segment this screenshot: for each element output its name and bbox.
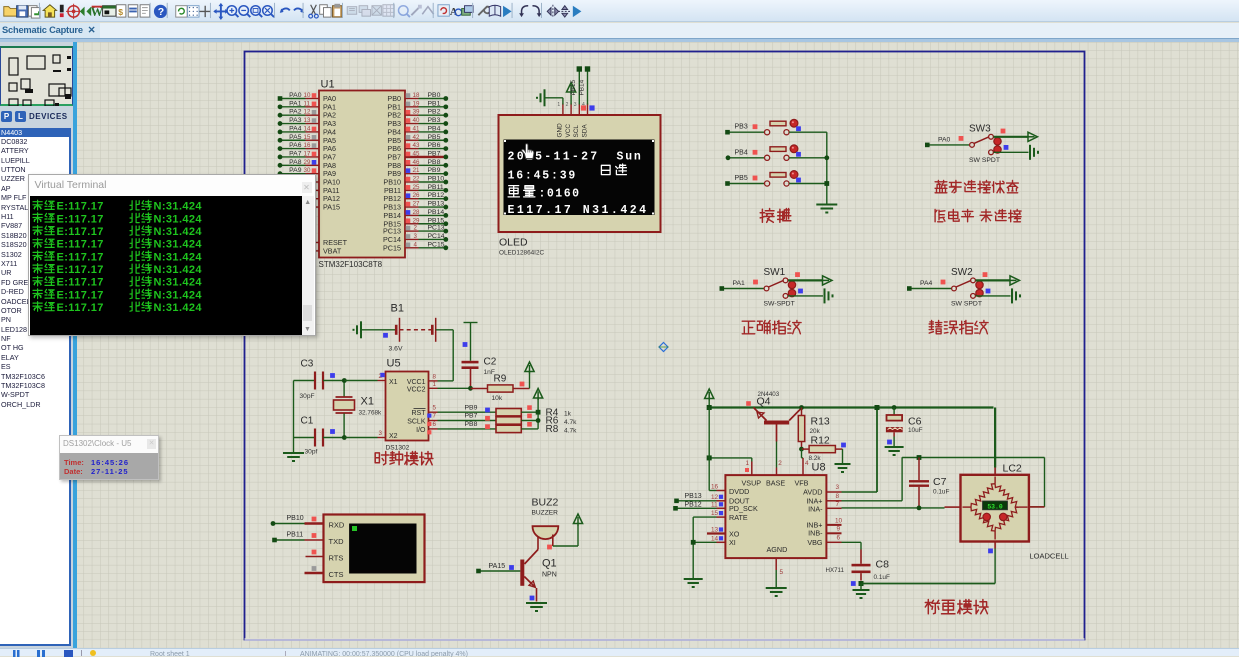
- node X1 top junction: [341, 378, 346, 383]
- svg-text:X1: X1: [389, 379, 398, 386]
- svg-text:4.7k: 4.7k: [564, 427, 577, 434]
- capacitor C7 0.1uF: [916, 455, 921, 460]
- svg-text:BUZZER: BUZZER: [531, 509, 558, 516]
- resistor R8 4.7k: [496, 425, 521, 432]
- LC2 left pin: [944, 506, 960, 508]
- svg-text:PB8: PB8: [464, 421, 477, 428]
- svg-text:B1: B1: [390, 302, 403, 314]
- wire AVDD pin 3: [826, 491, 842, 493]
- label 蓝牙连接状态: [935, 180, 947, 192]
- wire button gnd bus vertical: [825, 132, 827, 203]
- svg-text:27: 27: [412, 200, 419, 207]
- wire PB11 from U1 pin 25: [405, 189, 419, 191]
- wire DVDD row: [709, 489, 716, 491]
- svg-text:TXD: TXD: [328, 537, 344, 546]
- svg-text::0160: :0160: [538, 187, 580, 200]
- VT row 9: [33, 302, 42, 312]
- wire top power rail: [709, 406, 993, 408]
- wire VBG pin 6 to C8: [826, 541, 842, 543]
- VT row 6: [33, 264, 42, 274]
- state squares OLED SCL/SDA: [580, 105, 585, 110]
- node X1 bottom junction: [341, 435, 346, 440]
- wire PA4 to U1 pin 14: [279, 130, 305, 132]
- svg-text:PB12: PB12: [684, 501, 701, 508]
- wire SW1 throw2 to ground: [788, 294, 823, 296]
- svg-text:Q1: Q1: [542, 557, 557, 569]
- wire PB11 to TXD: [274, 539, 304, 541]
- node rail R13 tap: [799, 405, 804, 410]
- svg-text:PB15: PB15: [570, 79, 577, 95]
- label 正确指纹: [742, 321, 755, 334]
- svg-text:16:45:39: 16:45:39: [507, 169, 577, 182]
- svg-text:$: $: [118, 7, 123, 17]
- svg-text:PB12: PB12: [427, 192, 444, 199]
- svg-text:18: 18: [412, 92, 419, 99]
- svg-text:PA1: PA1: [732, 280, 745, 287]
- wire PB4 from U1 pin 41: [405, 130, 419, 132]
- svg-text:PB9: PB9: [427, 167, 440, 174]
- svg-text:VFB: VFB: [794, 478, 808, 487]
- push button PB5: [764, 180, 769, 185]
- svg-text:PA2: PA2: [289, 108, 302, 115]
- svg-text:PB0: PB0: [427, 92, 440, 99]
- svg-text:PB8: PB8: [427, 158, 440, 165]
- svg-text:DS1302: DS1302: [385, 444, 409, 451]
- U5 VCC2 pin 1 wire to node: [428, 387, 437, 389]
- origin marker: [659, 342, 668, 351]
- Q4 base wire down to U8 BASE: [775, 424, 777, 441]
- power terminal weigh module: [704, 389, 713, 399]
- svg-text:NPN: NPN: [542, 571, 557, 578]
- svg-text:PC13: PC13: [427, 224, 444, 231]
- label 时钟模块: [375, 451, 388, 464]
- svg-text:RATE: RATE: [729, 512, 748, 521]
- power terminal R pack: [537, 397, 539, 429]
- svg-text:PA0: PA0: [289, 92, 302, 99]
- svg-text:PA15: PA15: [488, 563, 505, 570]
- svg-text:RXD: RXD: [328, 520, 344, 529]
- svg-text:PB5: PB5: [734, 175, 747, 182]
- svg-text:SCLK: SCLK: [407, 418, 426, 425]
- svg-text:SW1: SW1: [763, 267, 785, 278]
- serial module body: [323, 514, 424, 582]
- power terminal R9: [528, 372, 530, 388]
- svg-text:1: 1: [432, 381, 436, 388]
- svg-text:8: 8: [835, 493, 839, 500]
- sheet border: [244, 51, 1084, 639]
- svg-text:PA5: PA5: [289, 133, 302, 140]
- wire PB13 to DOUT: [677, 499, 716, 501]
- svg-text:C7: C7: [933, 476, 947, 488]
- svg-text:R8: R8: [545, 424, 558, 435]
- svg-text:PB5: PB5: [427, 133, 440, 140]
- svg-text:10uF: 10uF: [908, 427, 923, 434]
- wire PB2 from U1 pin 39: [405, 114, 419, 116]
- VT row 8: [33, 289, 42, 299]
- LC2 bottom pin: [994, 541, 996, 548]
- svg-text:2015-11-27: 2015-11-27: [507, 150, 599, 163]
- svg-text:17: 17: [303, 150, 310, 157]
- crystal X1 32.768k: [343, 380, 345, 396]
- svg-text:42: 42: [412, 133, 419, 140]
- OLED screen: [503, 139, 654, 215]
- INB+ stub pin 10: [826, 523, 842, 525]
- wire PB5 from U1 pin 42: [405, 139, 419, 141]
- svg-text:R9: R9: [493, 373, 506, 384]
- svg-text:29: 29: [412, 217, 419, 224]
- U1 pin PA12 stub: [310, 197, 319, 199]
- svg-text:30pf: 30pf: [304, 448, 317, 455]
- svg-text:C2: C2: [483, 356, 496, 367]
- XO stub: [707, 532, 725, 534]
- wire button to gnd bus: [789, 131, 827, 133]
- svg-text:4.7k: 4.7k: [564, 418, 577, 425]
- LC2 bridge resistors: [971, 483, 995, 506]
- wire PB0 from U1 pin 18: [405, 97, 419, 99]
- svg-text:4: 4: [805, 460, 809, 467]
- SW3 toggle buttons: [993, 137, 1000, 144]
- svg-text:5: 5: [432, 404, 436, 411]
- svg-text:?: ?: [158, 7, 164, 18]
- svg-text:16: 16: [711, 483, 719, 490]
- svg-text:1: 1: [557, 102, 560, 108]
- svg-text:HX711: HX711: [825, 567, 844, 574]
- wire PA15 to Q1 base: [479, 570, 520, 572]
- wire PB10 to RXD: [272, 522, 304, 524]
- svg-text:Root sheet 1: Root sheet 1: [150, 651, 190, 657]
- label 按键: [760, 208, 774, 222]
- INB- stub pin 9: [826, 532, 842, 534]
- wire PB3 from U1 pin 40: [405, 122, 419, 124]
- resistor R13 20k: [800, 407, 802, 415]
- wire BUZ2 to power: [551, 534, 553, 546]
- svg-text:PB10: PB10: [286, 515, 303, 522]
- svg-text:OLED12864I2C: OLED12864I2C: [499, 249, 545, 256]
- SW2 toggle buttons: [975, 281, 982, 288]
- svg-text:X1: X1: [360, 395, 373, 407]
- svg-text:7: 7: [432, 412, 436, 419]
- left panel: [0, 42, 76, 648]
- svg-text:29: 29: [303, 158, 310, 165]
- svg-text:PB7: PB7: [427, 150, 440, 157]
- wire pin1 to left rail: [750, 461, 752, 475]
- wire PB10 from U1 pin 22: [405, 181, 419, 183]
- label 错误指纹: [929, 320, 942, 333]
- svg-text:PB10: PB10: [427, 175, 444, 182]
- svg-text:DVDD: DVDD: [729, 487, 749, 496]
- wire PA6 to U1 pin 16: [279, 147, 305, 149]
- wire PA1 to U1 pin 11: [279, 105, 305, 107]
- svg-text:SW3: SW3: [969, 123, 991, 134]
- toolbar: [0, 0, 1239, 22]
- svg-text:X2: X2: [389, 433, 398, 440]
- wire PC14 from U1 pin 3: [405, 238, 419, 240]
- svg-text:PA7: PA7: [289, 150, 302, 157]
- ground buttons: [816, 203, 837, 205]
- svg-text:53.0: 53.0: [987, 503, 1003, 510]
- svg-text:41: 41: [412, 125, 419, 132]
- wire INA+ loop up/right/down: [901, 457, 903, 501]
- svg-text:4: 4: [413, 241, 417, 248]
- B1 cell plates: [394, 324, 397, 334]
- ground at OLED GND pin: [544, 96, 562, 98]
- svg-text:PD_SCK: PD_SCK: [729, 504, 758, 513]
- svg-text:PB15: PB15: [427, 217, 444, 224]
- U1 pin RESET stub: [310, 241, 319, 243]
- wire gnd to B1: [361, 328, 396, 330]
- wire INA- pin 7: [826, 507, 842, 509]
- wire PB12 to PD_SCK: [676, 507, 716, 509]
- svg-text:VSUP: VSUP: [741, 478, 761, 487]
- CTS stub: [304, 571, 323, 573]
- wire INA+ pin 8: [826, 499, 842, 501]
- svg-text:PB11: PB11: [427, 183, 443, 190]
- svg-text:PB4: PB4: [427, 125, 440, 132]
- svg-text:PA4: PA4: [289, 125, 302, 132]
- node VCC2/C2/R9: [468, 385, 473, 390]
- ground R12: [841, 449, 843, 463]
- svg-text:INA-: INA-: [808, 504, 823, 513]
- svg-text:8: 8: [432, 373, 436, 380]
- svg-text:PB11: PB11: [286, 531, 303, 538]
- U5 VCC1 pin 8: [428, 379, 437, 381]
- svg-text:VCC2: VCC2: [406, 386, 425, 393]
- svg-text:9: 9: [836, 525, 840, 532]
- svg-text:10: 10: [835, 517, 843, 524]
- svg-text:SW SPDT: SW SPDT: [969, 156, 1000, 163]
- svg-text:U5: U5: [386, 357, 400, 369]
- resistor R6 4.7k: [496, 416, 521, 423]
- svg-text:PB14: PB14: [578, 79, 585, 95]
- svg-text:PC14: PC14: [427, 232, 444, 239]
- wire PB9 from U1 pin 21: [405, 172, 419, 174]
- wire PB8 from U1 pin 46: [405, 164, 419, 166]
- ground at B1: [360, 321, 362, 338]
- VT row 7: [33, 276, 42, 286]
- wire PB15 from U1 pin 29: [405, 222, 419, 224]
- U1 pin VBAT stub: [310, 249, 319, 251]
- svg-text:PB2: PB2: [427, 108, 440, 115]
- svg-text:PA15: PA15: [323, 202, 340, 211]
- svg-text:U1: U1: [320, 78, 334, 90]
- svg-text:AVDD: AVDD: [803, 487, 822, 496]
- splitter: [73, 42, 77, 648]
- svg-text:VBAT: VBAT: [323, 246, 342, 255]
- svg-text:R13: R13: [810, 415, 829, 427]
- wire U5 to R6 (PB7): [428, 419, 437, 421]
- label 低电平 未连接: [935, 209, 945, 221]
- svg-text:3: 3: [378, 430, 382, 437]
- svg-text:3.6V: 3.6V: [388, 345, 402, 352]
- wire PB7 from U1 pin 45: [405, 155, 419, 157]
- svg-text:PC15: PC15: [383, 243, 401, 252]
- svg-text:AGND: AGND: [766, 545, 787, 554]
- wire SW2 throw1 to power: [975, 279, 1010, 281]
- wire C3/C1 left vertical + ground: [292, 380, 294, 452]
- capacitor C2 1nF: [463, 321, 477, 323]
- svg-text:GND: GND: [556, 122, 563, 137]
- wire X1 node to U5 X1: [344, 379, 377, 381]
- wire PA1 to SW1 pole: [721, 287, 763, 289]
- tab bar: [0, 23, 1239, 38]
- svg-text:C1: C1: [300, 415, 313, 426]
- svg-text:30: 30: [303, 167, 310, 174]
- svg-text:45: 45: [412, 150, 419, 157]
- VT row 3: [33, 226, 42, 236]
- svg-text:VCC1: VCC1: [406, 379, 425, 386]
- svg-text:C8: C8: [875, 558, 889, 570]
- node C8 bottom: [858, 581, 863, 586]
- svg-text:11: 11: [711, 501, 718, 508]
- svg-text:3: 3: [413, 232, 417, 239]
- svg-text:RTS: RTS: [328, 553, 343, 562]
- VT row 1: [33, 200, 42, 210]
- wire PB1 from U1 pin 19: [405, 105, 419, 107]
- power terminal at OLED VCC pin: [570, 94, 572, 104]
- wire XI to gnd bus: [693, 541, 716, 543]
- svg-text:PB1: PB1: [427, 100, 440, 107]
- microcontroller U1 STM32F103C8T8 body: [319, 90, 405, 257]
- svg-text:LOADCELL: LOADCELL: [1029, 551, 1068, 560]
- wire PB5 to button: [727, 182, 764, 184]
- tab underline: [0, 38, 1239, 42]
- svg-text:15: 15: [303, 133, 310, 140]
- device list: [0, 128, 71, 646]
- svg-text:Sun: Sun: [616, 150, 642, 163]
- capacitor C8 0.1uF: [860, 549, 862, 563]
- svg-text:PB6: PB6: [427, 142, 440, 149]
- svg-text:PC15: PC15: [427, 241, 444, 248]
- OLED pin stubs 1-4: [561, 103, 563, 115]
- svg-text:PB4: PB4: [734, 149, 747, 156]
- svg-text:PB9: PB9: [464, 404, 477, 411]
- svg-text:25: 25: [412, 183, 419, 190]
- LC2 buttons: [983, 513, 990, 520]
- wire PA2 to U1 pin 12: [279, 114, 305, 116]
- OLED text line3 weight: [508, 185, 519, 196]
- svg-text:STM32F103C8T8: STM32F103C8T8: [318, 260, 382, 269]
- svg-text:PB14: PB14: [427, 208, 444, 215]
- svg-text:BUZ2: BUZ2: [531, 496, 558, 508]
- wire SCL to PB15 terminal: [578, 70, 580, 104]
- svg-text:19: 19: [412, 100, 419, 107]
- svg-text:21: 21: [412, 167, 419, 174]
- svg-text:VBG: VBG: [807, 537, 823, 546]
- wire PB14 from U1 pin 28: [405, 214, 419, 216]
- svg-text:PA4: PA4: [920, 280, 933, 287]
- svg-text:PA8: PA8: [289, 158, 302, 165]
- svg-text:SDA: SDA: [581, 123, 588, 137]
- svg-text:28: 28: [412, 208, 419, 215]
- node R13/R12: [799, 446, 804, 451]
- wire PC15 from U1 pin 4: [405, 246, 419, 248]
- svg-text:40: 40: [412, 117, 419, 124]
- AGND pin 5 to ground: [775, 558, 777, 570]
- svg-text:15: 15: [711, 510, 719, 517]
- svg-text:5: 5: [779, 569, 783, 576]
- svg-text:46: 46: [412, 158, 419, 165]
- svg-text:PA3: PA3: [289, 117, 302, 124]
- svg-text:VCC: VCC: [564, 123, 571, 137]
- label 称重模块: [925, 599, 939, 613]
- wire VFB vertical: [800, 449, 802, 458]
- push button PB3: [764, 129, 769, 134]
- svg-text:OLED: OLED: [499, 236, 528, 248]
- VT row 4: [33, 238, 42, 248]
- svg-text:2: 2: [413, 224, 417, 231]
- wire RATE to gnd bus: [693, 516, 716, 518]
- wire PA0 to U1 pin 10: [279, 97, 305, 99]
- svg-text:SW-SPDT: SW-SPDT: [763, 300, 794, 307]
- wire left rail vertical: [708, 407, 710, 490]
- wire U5 to R4 (PB9): [428, 411, 437, 413]
- wire PB3 to button: [727, 131, 764, 133]
- wire X2 node to U5 X2: [344, 436, 377, 438]
- LC2 display: [982, 501, 1007, 510]
- svg-text:PB3: PB3: [734, 123, 747, 130]
- svg-text:SW SPDT: SW SPDT: [951, 300, 982, 307]
- svg-text:0.1uF: 0.1uF: [933, 488, 949, 495]
- svg-text:INB-: INB-: [808, 528, 823, 537]
- wire PA4 to SW2 pole: [909, 287, 951, 289]
- svg-text:10: 10: [303, 92, 310, 99]
- svg-text:10k: 10k: [491, 395, 502, 402]
- SW1 toggle buttons: [788, 281, 795, 288]
- OLED display body: [498, 115, 660, 232]
- wire PB6 from U1 pin 43: [405, 147, 419, 149]
- wire SW3 throw1 to power: [993, 135, 1028, 137]
- svg-text:39: 39: [412, 108, 419, 115]
- svg-text:1: 1: [745, 460, 749, 467]
- svg-text:ANIMATING: 00:00:57.350000 (CP: ANIMATING: 00:00:57.350000 (CPU load pen…: [300, 651, 468, 657]
- svg-text:6: 6: [836, 534, 840, 541]
- wire AVDD rail up: [876, 407, 878, 492]
- DS1302 clock popup: [59, 435, 159, 481]
- svg-text:XI: XI: [729, 538, 736, 547]
- gnd bus left of U8: [692, 517, 694, 578]
- wire SW3 throw2 to ground: [993, 151, 1028, 153]
- svg-text:0.1uF: 0.1uF: [873, 574, 889, 581]
- wire PC13 from U1 pin 2: [405, 230, 419, 232]
- VT row 5: [33, 251, 42, 261]
- svg-text:14: 14: [303, 125, 310, 132]
- svg-text:CTS: CTS: [328, 570, 343, 579]
- svg-text:13: 13: [303, 117, 310, 124]
- mouse cursor: [521, 143, 533, 158]
- U1 pin PA11 stub: [310, 189, 319, 191]
- U1 pin PA10 stub: [310, 181, 319, 183]
- wire PB13 from U1 pin 27: [405, 206, 419, 208]
- svg-text:I/O: I/O: [416, 426, 426, 433]
- Q1 emitter to ground: [535, 588, 537, 602]
- status bar: [0, 648, 1239, 656]
- svg-text:PB13: PB13: [684, 492, 701, 499]
- LC2 right pin: [1028, 505, 1044, 507]
- svg-text:RST: RST: [411, 410, 426, 417]
- svg-text:12: 12: [303, 108, 310, 115]
- svg-text:LC2: LC2: [1002, 462, 1021, 474]
- svg-text:BASE: BASE: [766, 478, 785, 487]
- svg-text:PA6: PA6: [289, 142, 302, 149]
- wire PA0 to SW3 pole: [927, 143, 969, 145]
- wire B1 to U5 VCC1: [435, 328, 453, 330]
- svg-text:PA9: PA9: [289, 167, 302, 174]
- svg-text:1k: 1k: [564, 410, 572, 417]
- wire PA8 to U1 pin 29: [279, 164, 305, 166]
- VT row 2: [33, 213, 42, 223]
- svg-text:3: 3: [573, 102, 576, 108]
- wire SW1 throw1 to power: [788, 279, 823, 281]
